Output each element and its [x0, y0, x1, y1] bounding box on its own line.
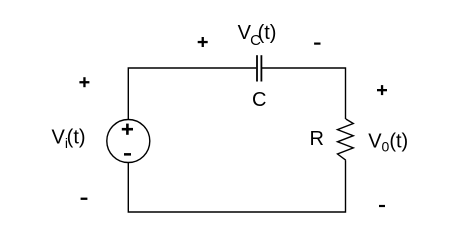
capacitor C left plate — [256, 55, 258, 81]
svg-text:VC(t): VC(t) — [238, 22, 277, 49]
wire top-left segment (source to capacitor) — [128, 68, 256, 120]
plus sign left (Vi polarity) — [79, 77, 89, 87]
svg-text:R: R — [310, 128, 324, 150]
plus sign top (Vc polarity) — [198, 37, 208, 47]
svg-text:V0(t): V0(t) — [368, 131, 408, 155]
plus sign inside source — [122, 124, 133, 135]
capacitor C right plate — [260, 55, 262, 81]
minus sign right (Vo polarity) — [379, 205, 385, 207]
voltage source Vi circle — [107, 120, 150, 163]
svg-text:Vi(t): Vi(t) — [52, 127, 86, 152]
resistor R zigzag — [338, 119, 354, 160]
svg-text:C: C — [252, 89, 266, 111]
minus sign inside source — [124, 153, 131, 156]
plus sign right (Vo polarity) — [377, 85, 387, 95]
wire bottom segment — [128, 160, 345, 212]
wire top-right segment (capacitor to resistor) — [262, 68, 346, 119]
minus sign top (Vc polarity) — [314, 43, 320, 45]
minus sign left (Vi polarity) — [81, 198, 88, 200]
